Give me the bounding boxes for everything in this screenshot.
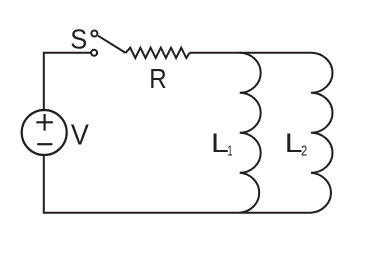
svg-text:1: 1	[228, 143, 233, 160]
svg-text:L: L	[285, 128, 303, 158]
svg-text:V: V	[71, 119, 89, 151]
svg-text:2: 2	[301, 143, 307, 160]
svg-text:S: S	[70, 24, 87, 55]
svg-text:L: L	[211, 128, 229, 158]
svg-text:R: R	[149, 63, 167, 94]
